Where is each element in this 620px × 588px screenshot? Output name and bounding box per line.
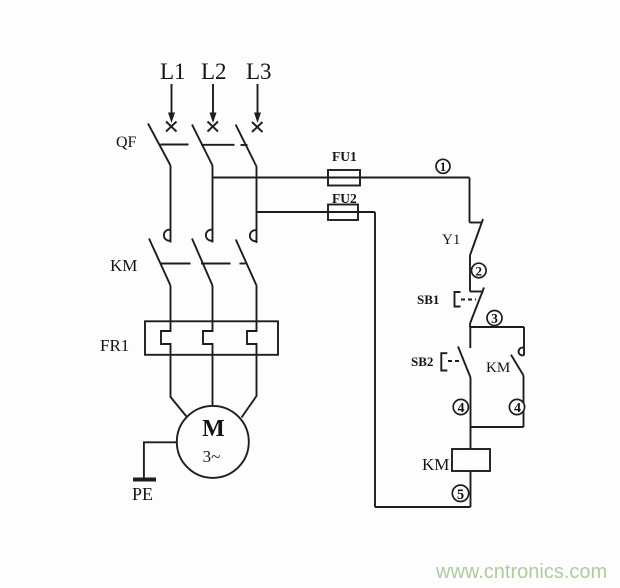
svg-text:L1: L1 <box>160 59 186 84</box>
supply arrow L1 <box>168 84 175 123</box>
fuse FU2 <box>328 205 358 221</box>
ground bar PE <box>133 478 156 482</box>
wire node1 down to Y1 <box>469 178 471 223</box>
wire junction to KM branch <box>470 326 524 328</box>
supply arrow L2 <box>210 84 217 123</box>
FR1 heater phase 3 <box>247 321 257 355</box>
wire control left rail <box>374 212 376 507</box>
supply arrow L3 <box>254 84 261 123</box>
svg-text:www.cntronics.com: www.cntronics.com <box>435 561 607 583</box>
svg-text:3~: 3~ <box>203 447 221 466</box>
fuse FU1 <box>328 170 360 186</box>
contactor KM pole 1 contact arc <box>164 230 170 241</box>
KM aux contact arc <box>519 348 524 356</box>
pushbutton SB2 <box>441 347 470 378</box>
wire L1 QF to KM <box>170 166 172 243</box>
contactor KM pole 3 contact arc <box>250 230 256 241</box>
svg-text:4: 4 <box>458 401 465 416</box>
svg-text:4: 4 <box>514 401 521 416</box>
svg-text:FU2: FU2 <box>332 191 357 206</box>
node 1 <box>436 159 450 174</box>
svg-text:Y1: Y1 <box>442 232 460 248</box>
wire junction down to SB2 <box>469 327 471 348</box>
svg-text:PE: PE <box>132 484 153 504</box>
breaker QF linkage <box>161 144 248 147</box>
wire SB2 down to coil <box>470 378 472 450</box>
svg-text:SB2: SB2 <box>411 354 433 369</box>
svg-text:3: 3 <box>491 311 498 326</box>
node 5 <box>452 485 468 503</box>
wire coil to bottom <box>470 471 472 507</box>
wire SB1 to junction <box>469 324 471 328</box>
svg-text:1: 1 <box>440 160 446 174</box>
svg-text:KM: KM <box>422 455 449 474</box>
KM aux blade <box>511 355 524 376</box>
svg-text:L3: L3 <box>246 59 272 84</box>
contactor KM linkage <box>160 263 246 265</box>
wire L1 KM to FR1 <box>170 286 172 322</box>
pushbutton SB1 <box>455 288 485 324</box>
wire L2 KM to FR1 <box>212 286 214 322</box>
node 2 <box>472 263 487 278</box>
contactor KM pole 1 blade <box>149 239 171 286</box>
coil KM <box>452 449 490 471</box>
svg-text:FU1: FU1 <box>332 149 357 164</box>
terminal x L2 <box>208 122 219 132</box>
node 4 right <box>509 399 524 416</box>
thermal relay FR1 box <box>145 321 278 355</box>
terminal x L1 <box>166 122 177 132</box>
wire L2 QF to KM <box>212 166 214 243</box>
FR1 heater phase 2 <box>203 321 213 355</box>
contactor KM pole 2 blade <box>192 239 213 286</box>
contactor KM pole 2 contact arc <box>206 230 212 241</box>
contactor KM pole 3 blade <box>236 240 257 286</box>
svg-text:SB1: SB1 <box>417 292 439 307</box>
node 4 left <box>453 399 468 416</box>
svg-text:QF: QF <box>116 134 137 151</box>
wire L3 FR1 to motor <box>242 355 257 418</box>
node 3 <box>487 311 502 327</box>
wire L2 FR1 to motor <box>212 355 214 406</box>
FR1 heater phase 1 <box>161 321 171 355</box>
motor M circle <box>177 406 249 478</box>
wire to FU2 <box>257 211 376 213</box>
svg-text:2: 2 <box>476 264 483 279</box>
wire motor to PE <box>144 442 177 477</box>
breaker QF pole 2 blade <box>192 125 213 166</box>
wire control bottom <box>375 506 471 508</box>
breaker QF pole 3 blade <box>236 125 257 167</box>
wire L1 FR1 to motor <box>171 355 187 417</box>
svg-text:5: 5 <box>457 487 464 503</box>
svg-text:L2: L2 <box>201 59 227 84</box>
wire to FU1 <box>213 177 470 179</box>
terminal x L3 <box>252 122 263 132</box>
svg-text:M: M <box>202 416 225 442</box>
wire KM aux branch down <box>523 327 525 356</box>
svg-text:FR1: FR1 <box>100 336 129 355</box>
svg-text:KM: KM <box>110 256 137 275</box>
contact Y1 <box>470 219 484 255</box>
wire L3 QF to KM <box>256 167 258 244</box>
wire aux branch join <box>471 426 524 428</box>
breaker QF pole 1 blade <box>148 124 171 166</box>
svg-text:KM: KM <box>486 360 510 376</box>
wire Y1 to SB1 <box>469 255 471 292</box>
wire KM aux to join <box>523 376 525 428</box>
wire L3 KM to FR1 <box>256 286 258 322</box>
